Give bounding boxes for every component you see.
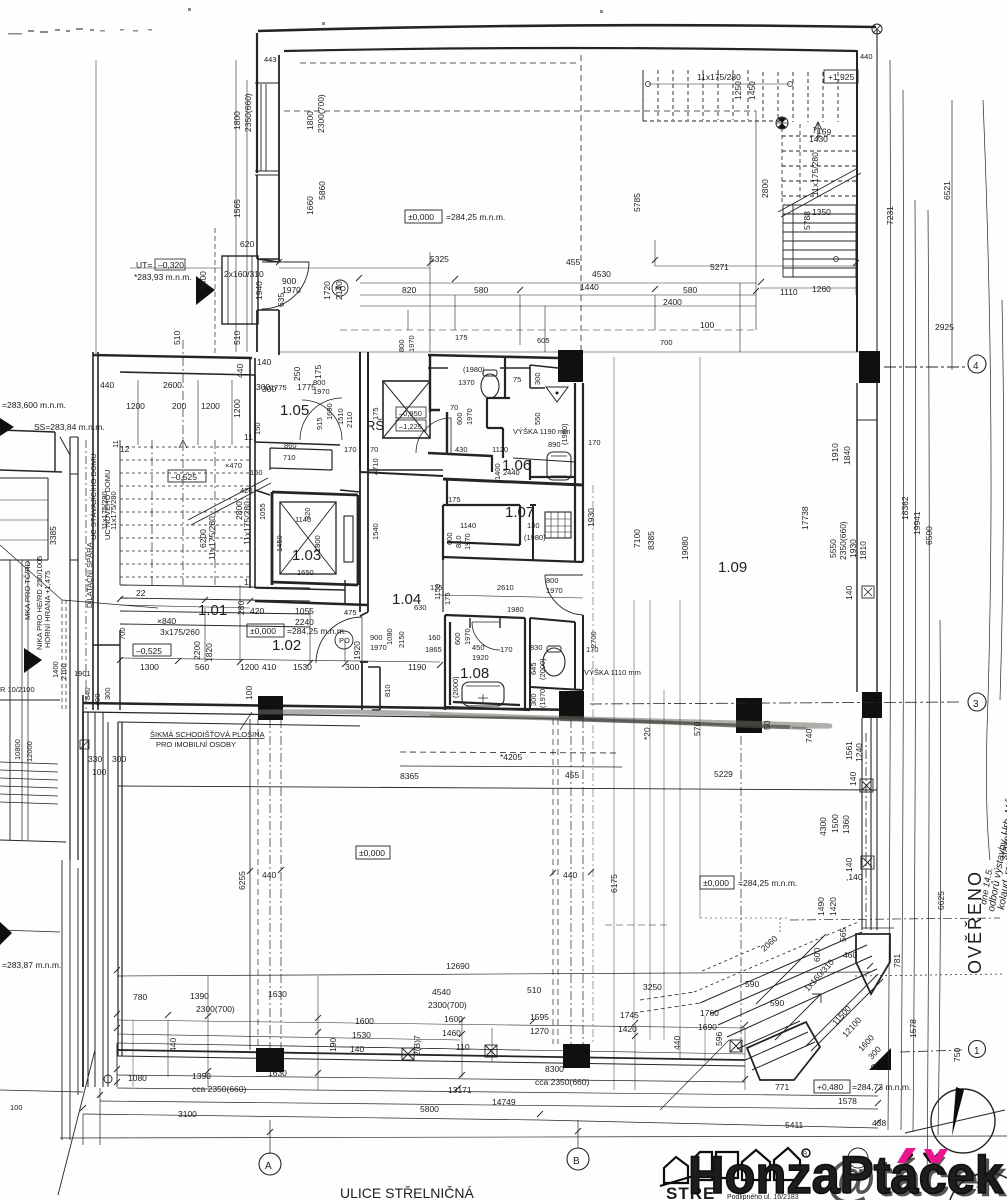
svg-text:460: 460 (843, 950, 857, 960)
level box 1.02 (247, 624, 284, 637)
svg-text:1800: 1800 (305, 111, 315, 130)
svg-text:5550: 5550 (828, 539, 838, 558)
svg-text:2140: 2140 (334, 281, 344, 300)
svg-text:2240: 2240 (295, 617, 314, 627)
svg-text:5860: 5860 (317, 181, 327, 200)
dashed expansion gap lines (62, 600, 66, 712)
dim line for 11x175/280 (648, 83, 790, 85)
svg-text:×470: ×470 (225, 461, 242, 470)
svg-text:1600: 1600 (444, 1014, 463, 1024)
stair rails dash-dot (152, 440, 215, 585)
svg-text:(1980): (1980) (463, 365, 485, 374)
svg-text:130: 130 (527, 521, 540, 530)
svg-text:600: 600 (445, 532, 454, 545)
top-left faint smudges (8, 8, 603, 35)
RS box with X (383, 381, 430, 438)
svg-text:3: 3 (973, 699, 979, 710)
wall left lower pier (257, 310, 279, 355)
svg-text:170: 170 (586, 645, 599, 654)
strelka logo houses (660, 1148, 800, 1186)
svg-text:6175: 6175 (609, 874, 619, 893)
left texts (0, 400, 112, 1112)
svg-text:150: 150 (250, 468, 263, 477)
svg-text:160: 160 (428, 633, 441, 642)
svg-text:11x175/280: 11x175/280 (100, 491, 109, 530)
door arc 800/1970 right wall (545, 575, 583, 615)
svg-text:771: 771 (775, 1082, 789, 1092)
svg-text:,140: ,140 (846, 872, 863, 882)
svg-text:3250: 3250 (643, 982, 662, 992)
svg-text:8385: 8385 (646, 531, 656, 550)
svg-text:R 10/2100: R 10/2100 (0, 685, 35, 694)
upper pentagon block (856, 934, 890, 994)
svg-text:1530: 1530 (352, 1030, 371, 1040)
dim tick marks (80, 257, 881, 1135)
svg-text:HORNÍ HRANA +1,475: HORNÍ HRANA +1,475 (43, 571, 52, 648)
svg-text:MKA PRO TČ/RD: MKA PRO TČ/RD (23, 560, 32, 620)
right wall below col3 (862, 718, 877, 930)
svg-text:1540: 1540 (371, 523, 380, 540)
svg-text:(1980): (1980) (524, 533, 546, 542)
svg-text:605: 605 (537, 336, 550, 345)
break line diagonal (778, 168, 861, 217)
svg-text:1970: 1970 (313, 387, 330, 396)
dotted connection (780, 918, 862, 934)
svg-text:110: 110 (456, 1042, 470, 1052)
column axes dashed center (249, 719, 251, 1050)
svg-text:1150: 1150 (433, 584, 442, 600)
svg-text:580: 580 (474, 285, 488, 295)
svg-text:1140: 1140 (460, 521, 476, 530)
svg-text:1250: 1250 (733, 81, 743, 100)
door arc 900/1970 (262, 262, 309, 309)
svg-text:596: 596 (714, 1032, 724, 1046)
arrow on ramp (775, 994, 821, 1040)
svg-text:19941: 19941 (912, 511, 922, 535)
svg-text:440: 440 (860, 52, 873, 61)
svg-text:590: 590 (770, 998, 784, 1008)
svg-text:560: 560 (195, 662, 209, 672)
svg-text:PO: PO (339, 636, 350, 645)
svg-text:700: 700 (118, 627, 127, 640)
lower solid steps 3x175/260 (120, 585, 310, 627)
svg-text:175: 175 (448, 495, 461, 504)
svg-text:=283,87 m.n.m.: =283,87 m.n.m. (2, 960, 61, 970)
door to 1.02 opening + arcs near 1.04 (360, 612, 368, 710)
svg-text:5788: 5788 (802, 211, 812, 230)
svg-text:1400: 1400 (198, 271, 208, 290)
svg-text:780: 780 (133, 992, 147, 1002)
room 1.02 top walls (255, 588, 345, 590)
svg-text:820: 820 (402, 285, 416, 295)
svg-text:(1980): (1980) (560, 423, 569, 445)
svg-text:50: 50 (762, 720, 772, 730)
svg-text:1970: 1970 (407, 335, 416, 352)
svg-text:565: 565 (838, 928, 848, 942)
leader line (0, 545, 158, 608)
svg-text:±0,000: ±0,000 (408, 212, 434, 222)
PO circle (332, 280, 348, 296)
svg-text:1800: 1800 (232, 111, 242, 130)
svg-text:510: 510 (527, 985, 541, 995)
svg-text:443: 443 (264, 55, 277, 64)
svg-text:200: 200 (172, 401, 186, 411)
outer west wall (93, 352, 98, 710)
svg-text:6500: 6500 (924, 526, 934, 545)
svg-text:2350(660): 2350(660) (838, 521, 848, 560)
svg-text:B: B (573, 1156, 580, 1167)
svg-text:475: 475 (344, 608, 357, 617)
svg-text:781: 781 (892, 954, 902, 968)
door arc wc (416, 418, 451, 453)
stair east wall (250, 358, 255, 588)
+0,480 box (814, 1080, 850, 1093)
svg-text:1910: 1910 (830, 443, 840, 462)
svg-text:1720: 1720 (322, 281, 332, 300)
svg-text:860: 860 (284, 441, 297, 450)
svg-text:12690: 12690 (446, 961, 470, 971)
black columns row3 (258, 696, 283, 720)
svg-text:900: 900 (370, 633, 383, 642)
svg-text:1565: 1565 (232, 199, 242, 218)
svg-text:HonzaPtáček: HonzaPtáček (688, 1146, 1003, 1200)
right wall segment under col4 (857, 383, 877, 692)
svg-text:7231: 7231 (885, 206, 895, 225)
svg-text:800: 800 (313, 378, 326, 387)
svg-text:100: 100 (700, 320, 714, 330)
room 1.06 right walls (530, 365, 558, 388)
svg-text:5800: 5800 (420, 1104, 439, 1114)
svg-text:550: 550 (533, 412, 542, 425)
svg-text:1578: 1578 (908, 1019, 918, 1038)
wall top of block (428, 355, 558, 358)
svg-text:±0,000: ±0,000 (359, 848, 385, 858)
svg-text:19080: 19080 (680, 536, 690, 560)
svg-text:635: 635 (276, 293, 286, 307)
svg-text:140: 140 (257, 357, 271, 367)
svg-text:1300: 1300 (140, 662, 159, 672)
svg-text:2400: 2400 (663, 297, 682, 307)
svg-text:1460: 1460 (442, 1028, 461, 1038)
svg-text:1810: 1810 (858, 541, 868, 560)
svg-text:830: 830 (530, 643, 543, 652)
svg-text:2300(700): 2300(700) (316, 94, 326, 133)
svg-text:1920: 1920 (352, 641, 362, 660)
svg-text:3x175/260: 3x175/260 (160, 627, 200, 637)
svg-text:440: 440 (235, 364, 245, 378)
svg-text:5229: 5229 (714, 769, 733, 779)
svg-text:1940: 1940 (254, 281, 264, 300)
svg-text:1690: 1690 (325, 403, 334, 420)
svg-text:1920: 1920 (472, 653, 489, 662)
svg-text:140: 140 (844, 858, 854, 872)
svg-text:ŠIKMÁ SCHODIŠŤOVÁ PLOŠINA: ŠIKMÁ SCHODIŠŤOVÁ PLOŠINA (150, 730, 265, 739)
svg-text:2800: 2800 (760, 179, 770, 198)
svg-text:1578: 1578 (838, 1096, 857, 1106)
wall left pier (257, 175, 279, 259)
svg-text:5325: 5325 (430, 254, 449, 264)
svg-text:2100: 2100 (59, 663, 68, 680)
svg-text:1440: 1440 (580, 282, 599, 292)
svg-text:3100: 3100 (178, 1109, 197, 1119)
svg-text:4: 4 (973, 361, 979, 372)
svg-text:1630: 1630 (268, 989, 287, 999)
top small shelf room above elevator (270, 448, 332, 470)
svg-text:100: 100 (10, 1103, 23, 1112)
svg-text:1760: 1760 (700, 1008, 719, 1018)
stair flight A treads (vertical dashed) (643, 70, 838, 122)
svg-text:2300(700): 2300(700) (196, 1004, 235, 1014)
svg-text:10800: 10800 (13, 739, 22, 760)
level box +1,925 (824, 70, 858, 83)
svg-text:175: 175 (455, 333, 468, 342)
svg-text:300: 300 (345, 662, 359, 672)
svg-text:300: 300 (533, 372, 542, 385)
svg-text:–0,950: –0,950 (399, 409, 422, 418)
svg-text:6625: 6625 (936, 891, 946, 910)
svg-text:UT=: UT= (136, 260, 152, 270)
svg-text:1360: 1360 (841, 815, 851, 834)
svg-text:11x175/280: 11x175/280 (207, 516, 217, 560)
svg-text:1970: 1970 (463, 533, 472, 550)
svg-text:1.05: 1.05 (280, 402, 309, 419)
svg-text:840: 840 (83, 687, 92, 700)
svg-text:440: 440 (262, 870, 276, 880)
wall top inner (284, 48, 856, 51)
svg-text:170: 170 (588, 438, 601, 447)
svg-text:=284,25 m.n.m.: =284,25 m.n.m. (446, 212, 505, 222)
svg-text:1390: 1390 (190, 991, 209, 1001)
svg-text:330: 330 (88, 754, 102, 764)
extension verticals bottom (168, 976, 745, 1090)
svg-text:250: 250 (292, 367, 302, 381)
niche 2x160/310 (222, 256, 258, 324)
svg-text:6255: 6255 (237, 871, 247, 890)
svg-text:1745: 1745 (620, 1010, 639, 1020)
svg-text:1420: 1420 (618, 1024, 637, 1034)
jog in neighbour wall (70, 474, 78, 560)
svg-text:1370: 1370 (458, 378, 475, 387)
svg-text:1055: 1055 (295, 606, 314, 616)
svg-text:915: 915 (315, 417, 324, 430)
wc room walls (428, 355, 492, 456)
svg-text:1080: 1080 (128, 1073, 147, 1083)
svg-text:510: 510 (232, 331, 242, 345)
svg-text:=284,25 m.n.m.: =284,25 m.n.m. (738, 878, 797, 888)
flight B treads horizontal dashed (782, 136, 856, 196)
svg-text:2300(700): 2300(700) (428, 1000, 467, 1010)
svg-text:890: 890 (548, 440, 561, 449)
svg-text:300: 300 (103, 687, 112, 700)
svg-text:440: 440 (563, 870, 577, 880)
svg-text:100: 100 (244, 686, 254, 700)
hatch rows lower-left (0, 762, 58, 804)
svg-text:1055: 1055 (258, 503, 267, 520)
svg-text:630: 630 (414, 603, 427, 612)
svg-text:1270: 1270 (530, 1026, 549, 1036)
svg-text:1600: 1600 (355, 1016, 374, 1026)
stamp arc bottom right (950, 1173, 1007, 1200)
neighbour outer wall (70, 437, 78, 860)
svg-text:1260: 1260 (812, 284, 831, 294)
svg-text:300: 300 (256, 382, 270, 392)
svg-text:5271: 5271 (710, 262, 729, 272)
hidden edge dashes top room (300, 62, 580, 64)
dim lines around 1.01/1.02 (120, 585, 440, 662)
stair south wall (93, 630, 120, 710)
svg-text:±0,000: ±0,000 (250, 626, 276, 636)
wall right inner (856, 50, 858, 352)
column blacks row 4 (558, 350, 583, 382)
svg-text:+1,925: +1,925 (828, 72, 855, 82)
svg-text:810: 810 (454, 535, 463, 548)
svg-text:1970: 1970 (465, 408, 474, 425)
svg-text:140: 140 (844, 586, 854, 600)
svg-text:–1,225: –1,225 (399, 422, 422, 431)
svg-text:70: 70 (370, 445, 378, 454)
svg-text:140: 140 (350, 1044, 364, 1054)
svg-text:–0,525: –0,525 (171, 472, 197, 482)
svg-text:5785: 5785 (632, 193, 642, 212)
svg-text:410: 410 (262, 662, 276, 672)
svg-text:1450: 1450 (747, 81, 757, 100)
window sill lines (255, 83, 279, 175)
svg-text:2(B)7: 2(B)7 (412, 1035, 422, 1056)
wall left inner (278, 55, 280, 262)
svg-text:–0,320: –0,320 (158, 260, 184, 270)
grid 1 circle (900, 1041, 986, 1058)
svg-text:1930: 1930 (586, 508, 596, 527)
svg-text:455: 455 (565, 770, 579, 780)
svg-text:1190: 1190 (408, 662, 427, 672)
svg-text:1.08: 1.08 (460, 665, 489, 682)
svg-text:1: 1 (974, 1046, 980, 1057)
svg-text:11x175/280: 11x175/280 (810, 152, 820, 196)
PO circle 1.02 (335, 631, 353, 649)
svg-text:1.07: 1.07 (505, 504, 534, 521)
compass (905, 1089, 1005, 1153)
svg-text:1775: 1775 (270, 383, 287, 392)
svg-text:1200: 1200 (232, 399, 242, 418)
handwritten notes column (978, 748, 1007, 913)
shower grid 1.07 (545, 512, 571, 538)
diagonal break line (188, 478, 271, 525)
window glazing left (261, 84, 266, 171)
svg-text:600: 600 (455, 412, 464, 425)
washbasin 1.06 (547, 452, 571, 480)
svg-text:740: 740 (804, 729, 814, 743)
entrance arrow left (196, 276, 215, 305)
smudge band (258, 712, 830, 726)
toilet (481, 374, 499, 398)
svg-text:300: 300 (112, 754, 126, 764)
-0,525 boxes (133, 470, 206, 656)
west wall multi-line (82, 712, 84, 1087)
svg-text:6521: 6521 (942, 181, 952, 200)
level box top (405, 210, 442, 223)
svg-text:(2000): (2000) (538, 658, 547, 680)
svg-text:620: 620 (240, 239, 254, 249)
svg-text:4530: 4530 (592, 269, 611, 279)
svg-text:510: 510 (172, 331, 182, 345)
svg-text:2925: 2925 (935, 322, 954, 332)
svg-text:2150: 2150 (397, 631, 406, 648)
svg-text:1110: 1110 (780, 287, 798, 297)
svg-text:ULICE STŘELNIČNÁ: ULICE STŘELNIČNÁ (340, 1185, 474, 1200)
column symbol (776, 117, 788, 129)
small tick circle bottom-left (104, 1075, 112, 1083)
dim verticals in stair (138, 380, 232, 445)
svg-text:8365: 8365 (400, 771, 419, 781)
svg-text:=284,73 m.n.m.: =284,73 m.n.m. (852, 1082, 911, 1092)
small marker square upper-left of garage (80, 740, 89, 749)
bottom wall (117, 1050, 745, 1060)
wc room next to 1.08 (530, 615, 583, 710)
svg-text:1.09: 1.09 (718, 559, 747, 576)
svg-text:440: 440 (168, 1038, 178, 1052)
svg-text:170: 170 (344, 445, 357, 454)
svg-text:1: 1 (244, 577, 249, 587)
svg-text:440: 440 (100, 380, 114, 390)
svg-text:700: 700 (660, 338, 673, 347)
svg-text:A: A (265, 1161, 272, 1172)
svg-text:140: 140 (848, 772, 858, 786)
svg-text:438: 438 (872, 1118, 886, 1128)
svg-text:1650: 1650 (297, 568, 314, 577)
svg-text:1450: 1450 (275, 535, 284, 552)
bath tub 1.08 (462, 682, 504, 706)
svg-text:11x175/280: 11x175/280 (697, 72, 741, 82)
svg-text:PRO IMOBILNÍ OSOBY: PRO IMOBILNÍ OSOBY (156, 740, 236, 749)
svg-text:6200: 6200 (198, 529, 208, 548)
svg-text:190: 190 (328, 1038, 338, 1052)
svg-text:1430: 1430 (809, 134, 828, 144)
svg-text:×840: ×840 (157, 616, 176, 626)
grid 3 circle (590, 693, 986, 711)
svg-text:1970: 1970 (463, 628, 472, 645)
svg-text:175: 175 (371, 407, 380, 420)
svg-text:4710: 4710 (371, 458, 380, 475)
svg-text:2x160/310: 2x160/310 (224, 269, 264, 279)
up arrow (814, 122, 822, 140)
svg-text:2600: 2600 (163, 380, 182, 390)
svg-text:±0,000: ±0,000 (703, 878, 729, 888)
svg-text:1800: 1800 (313, 535, 322, 552)
svg-text:(2000): (2000) (451, 676, 460, 698)
svg-text:12000: 12000 (25, 741, 34, 762)
svg-text:UC STÁVAJÍCÍHO DOMU: UC STÁVAJÍCÍHO DOMU (89, 453, 98, 540)
svg-text:800: 800 (397, 339, 406, 352)
svg-text:1120: 1120 (492, 445, 508, 454)
svg-text:SS=283,84 m.n.m.: SS=283,84 m.n.m. (34, 422, 105, 432)
svg-text:11: 11 (244, 432, 253, 442)
svg-text:5411: 5411 (785, 1120, 804, 1130)
level boxes garage (356, 846, 390, 859)
svg-text:175: 175 (443, 592, 452, 605)
svg-text:1690: 1690 (698, 1022, 717, 1032)
inner top line + long room top edge (118, 722, 360, 726)
svg-text:+0,480: +0,480 (817, 1082, 844, 1092)
svg-text:cca 2350(660): cca 2350(660) (535, 1077, 590, 1087)
box symbols on right wall (860, 779, 874, 869)
svg-text:(1970): (1970) (538, 686, 547, 708)
dims lines inside block (440, 595, 583, 598)
svg-text:1865: 1865 (425, 645, 442, 654)
svg-text:1970: 1970 (546, 586, 563, 595)
svg-text:1200: 1200 (240, 662, 259, 672)
1.07 room (443, 480, 583, 562)
stair treads dashed (120, 447, 250, 577)
